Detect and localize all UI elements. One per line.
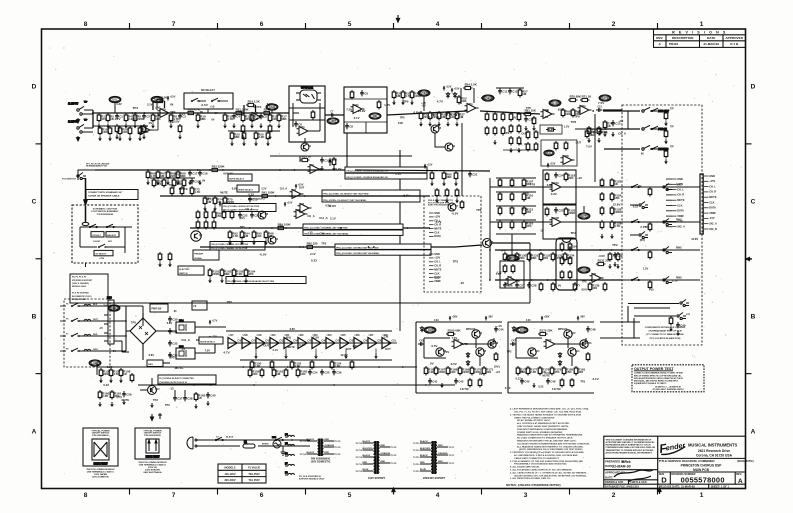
op-amp U3A <box>297 126 311 136</box>
resistor R26 <box>266 131 270 141</box>
svg-text:TO P9: TO P9 <box>449 463 454 465</box>
callout label box <box>106 232 119 237</box>
ground <box>194 404 198 409</box>
resistor R69 <box>176 170 186 180</box>
svg-text:CONFIDENCE AND SHALL NOT BE DI: CONFIDENCE AND SHALL NOT BE DISCLOSED OR <box>606 446 656 449</box>
jack J2 <box>639 232 648 239</box>
resistor R121 <box>600 178 604 188</box>
resistor R33 <box>419 111 431 121</box>
callout label box <box>210 242 265 251</box>
junction dots along buses <box>131 110 612 386</box>
svg-text:4. LAST REFERENCE DESIGNATORS: 4. LAST REFERENCE DESIGNATORS USED ARE: … <box>510 408 589 411</box>
svg-text:SQUARE INPUT SIGNALS TO VERIFY: SQUARE INPUT SIGNALS TO VERIFY: <box>634 382 667 385</box>
resistor R81 <box>172 178 183 188</box>
resistor R91 <box>204 220 208 230</box>
resistor R68 <box>166 170 176 180</box>
svg-text:U2A: U2A <box>142 125 147 128</box>
switch box 2 caption <box>138 462 167 474</box>
transformer T1 caption <box>310 457 330 464</box>
svg-text:CH_L: CH_L <box>434 260 441 264</box>
power feed -17V <box>209 336 217 341</box>
svg-text:F1 VALUE: F1 VALUE <box>248 466 260 470</box>
svg-text:BLACK: BLACK <box>363 440 371 443</box>
svg-text:C17: C17 <box>192 172 198 176</box>
diode CR6 <box>466 360 469 366</box>
ground <box>232 278 236 283</box>
svg-text:C12: C12 <box>512 90 518 94</box>
capacitor C34 <box>308 369 318 375</box>
capacitor C45 <box>520 378 530 384</box>
node junction <box>147 169 149 171</box>
box <box>176 322 195 333</box>
callout label box <box>335 250 431 255</box>
vertical x97 <box>96 363 98 375</box>
svg-text:C36: C36 <box>336 371 342 375</box>
capacitor C18 <box>198 170 208 176</box>
svg-text:APPROVED: APPROVED <box>725 36 743 40</box>
callout label box <box>303 224 403 229</box>
ground <box>203 206 207 211</box>
ground <box>213 206 217 211</box>
svg-text:120V DOMESTIC: 120V DOMESTIC <box>92 477 110 479</box>
capacitor C8 <box>345 123 353 129</box>
svg-text:68K: 68K <box>234 135 240 139</box>
voltage annotations <box>99 300 232 370</box>
resistor R79 <box>152 178 162 188</box>
svg-text:2.1V: 2.1V <box>395 172 401 176</box>
svg-text:SCHEMATIC 3-BUTTON: SCHEMATIC 3-BUTTON <box>93 208 118 211</box>
svg-text:15K: 15K <box>614 196 620 200</box>
box stub wires <box>199 101 228 113</box>
ground <box>138 136 142 141</box>
svg-text:U15: U15 <box>179 345 184 348</box>
resistor R44 <box>501 126 505 136</box>
svg-text:+15: +15 <box>308 230 313 234</box>
transformer T2 caption <box>368 476 386 480</box>
capacitor C28 <box>527 282 537 288</box>
resistor R185 <box>669 316 673 326</box>
svg-text:MUTE: MUTE <box>122 398 130 402</box>
op-amp U4 <box>294 209 308 219</box>
node junction <box>489 249 491 251</box>
resistor R154 <box>330 360 341 370</box>
svg-text:VOLTAGES SHOWN IN PARENTHESES: VOLTAGES SHOWN IN PARENTHESES ARE FOR MU… <box>517 442 590 445</box>
svg-text:CLK: CLK <box>677 203 682 207</box>
panel row wire <box>622 186 700 188</box>
mains row stub <box>60 320 66 322</box>
box <box>184 93 233 109</box>
fuse F5 <box>285 444 294 446</box>
footswitch title <box>91 208 119 216</box>
footswitch dashed box <box>72 205 138 263</box>
power feed +15V <box>424 164 433 169</box>
ground <box>430 181 434 186</box>
svg-text:-15V: -15V <box>572 246 578 249</box>
op-amp buffer U19 <box>256 338 265 349</box>
zone column labels <box>84 21 704 499</box>
resistor R16 <box>268 124 272 134</box>
svg-text:3. ALL POLARIZED CAPACITORS IN: 3. ALL POLARIZED CAPACITORS IN uF, 25V, … <box>510 469 572 472</box>
resistor R184 <box>586 352 590 362</box>
capacitor C12 <box>508 88 518 94</box>
title block right rules <box>658 458 746 488</box>
resistor R65 <box>648 280 652 290</box>
resistor R150 <box>250 360 261 370</box>
svg-text:BLK/ORG: BLK/ORG <box>363 448 373 450</box>
output power wattage lines <box>653 385 684 391</box>
output power test text <box>634 372 684 386</box>
op-amp buffer U23 <box>312 338 321 349</box>
svg-text:(0V): (0V) <box>558 108 563 112</box>
svg-text:B: B <box>751 313 756 320</box>
resistor R83 <box>460 200 464 210</box>
svg-text:BLACK: BLACK <box>420 454 428 457</box>
buffer coupling <box>363 342 369 344</box>
resistor R110 <box>522 192 533 202</box>
svg-text:1. ALL RESISTORS IN OHMS, 1/4W: 1. ALL RESISTORS IN OHMS, 1/4W, 5%. <box>510 477 551 480</box>
buffer coupling <box>237 342 243 344</box>
callout label box <box>147 360 163 367</box>
svg-text:C45: C45 <box>524 380 530 384</box>
resistor R87 <box>196 210 200 220</box>
ground <box>128 136 132 141</box>
svg-text:6.8V: 6.8V <box>149 353 155 357</box>
resistor R52 <box>534 130 538 140</box>
resistor R129 <box>503 252 514 262</box>
cable into box <box>82 206 89 226</box>
svg-text:BLACK: BLACK <box>307 438 315 441</box>
switch S10 <box>71 303 79 307</box>
transistor Q4 <box>472 330 483 338</box>
svg-text:C4: C4 <box>236 115 240 119</box>
svg-text:A PROPRIETARY NATURE. IT IS FE: A PROPRIETARY NATURE. IT IS FENDER MUSIC… <box>606 441 656 444</box>
svg-text:C2: C2 <box>146 115 150 119</box>
power amp cell U12 rails <box>416 322 502 393</box>
svg-text:C38: C38 <box>187 397 193 401</box>
svg-text:U16, P11, T1, S1, F8, RT1. NOT: U16, P11, T1, S1, F8, RT1. NOT USED: C25… <box>514 411 582 414</box>
resistor R181 <box>574 366 585 376</box>
svg-text:12.8V: 12.8V <box>328 204 336 208</box>
resistor R85 <box>442 171 452 181</box>
ground <box>314 354 318 359</box>
capacitor C1 <box>115 113 123 119</box>
svg-text:0V: 0V <box>446 350 450 354</box>
svg-text:-15: -15 <box>169 386 174 390</box>
capacitor C21 <box>468 171 478 177</box>
svg-text:U6B: U6B <box>564 156 569 158</box>
svg-text:R92 330: R92 330 <box>307 242 318 246</box>
wire preamp chain <box>93 112 289 114</box>
wire input join <box>92 110 94 128</box>
resistor R135 <box>539 282 543 292</box>
approved by signature <box>605 470 653 482</box>
limiter block U2 <box>289 86 325 142</box>
svg-text:P6 (*)OPENS AS INPUT CONNECTE: P6 (*)OPENS AS INPUT CONNECTED <box>159 377 194 380</box>
svg-text:REV.: REV. <box>736 472 742 476</box>
svg-text:MUTE: MUTE <box>254 105 262 109</box>
resistor R66 <box>561 108 573 118</box>
transformer T3 <box>431 441 437 474</box>
transistor Q12 <box>564 330 576 338</box>
capacitor C44 <box>494 326 504 332</box>
ground <box>166 180 170 185</box>
resistor R64 <box>648 250 652 260</box>
capacitor C49 <box>676 322 686 328</box>
ground <box>669 327 673 332</box>
resistor R143 <box>568 256 572 266</box>
diode CR1 <box>446 92 449 98</box>
svg-text:120V DOMESTIC: 120V DOMESTIC <box>310 459 330 463</box>
switch S7 <box>631 219 639 223</box>
svg-text:C25: C25 <box>558 209 564 213</box>
resistor R70 <box>170 186 174 196</box>
resistor R117 <box>545 172 549 182</box>
svg-text:TO P9: TO P9 <box>449 447 454 449</box>
wire mute bus <box>95 169 355 171</box>
svg-text:ATION FROM FENDER MUSICAL INST: ATION FROM FENDER MUSICAL INSTRUMENTS. <box>606 451 653 454</box>
stuffing note text <box>72 277 93 301</box>
svg-text:U1A: U1A <box>161 108 166 111</box>
footswitch cable <box>84 178 87 205</box>
connector P9 labels <box>704 176 709 229</box>
revision zone arrow bottom left <box>392 488 395 494</box>
voltage annotations <box>346 99 452 125</box>
svg-text:SIG_A: SIG_A <box>677 225 685 229</box>
transistor Q14 <box>568 348 580 356</box>
switch box 2 title <box>143 429 162 437</box>
svg-text:MID: MID <box>373 114 378 118</box>
zone row labels <box>32 84 756 436</box>
resistor R119 <box>545 207 549 217</box>
svg-text:R36 1K: R36 1K <box>302 155 313 159</box>
transformer T2 primary leads <box>363 443 374 471</box>
svg-text:0.22: 0.22 <box>516 376 522 380</box>
breakaway note <box>86 164 109 168</box>
ground <box>676 331 680 336</box>
resistor R67 <box>571 108 581 118</box>
svg-text:GUITAR OR SPEAKER CABLE: GUITAR OR SPEAKER CABLE <box>88 195 120 198</box>
resistor R169 <box>458 366 470 376</box>
svg-text:-0.5V: -0.5V <box>226 172 233 176</box>
ground <box>320 166 324 171</box>
mid box dividers <box>344 99 387 133</box>
resistor R151 <box>270 360 274 370</box>
wire chorus row 3 <box>495 249 622 251</box>
svg-text:GND: GND <box>434 211 440 215</box>
svg-text:1M: 1M <box>507 256 512 260</box>
svg-text:2.2K: 2.2K <box>334 364 341 368</box>
svg-text:VREF: VREF <box>677 214 684 218</box>
power amp cell U13 rails <box>508 322 594 393</box>
resistor R183 <box>570 378 574 388</box>
resistor R120 <box>564 207 576 217</box>
svg-text:12.8V: 12.8V <box>341 353 348 357</box>
wire to jack panel <box>603 109 622 111</box>
svg-text:-0.5V: -0.5V <box>431 344 438 348</box>
svg-text:BLUE: BLUE <box>363 469 369 471</box>
svg-text:VREF: VREF <box>709 211 716 215</box>
ground <box>250 124 254 129</box>
resistor R156 <box>99 368 111 378</box>
svg-text:DEPTH: DEPTH <box>580 214 589 218</box>
resistor R73 <box>587 126 597 136</box>
svg-text:USING THE FOLLOWING CONDITIONS: USING THE FOLLOWING CONDITIONS: <box>514 417 555 419</box>
svg-text:DATABASE FILE: 84053.S01: DATABASE FILE: 84053.S01 <box>605 484 639 488</box>
resistor R54 <box>534 142 538 152</box>
ground <box>97 124 101 129</box>
svg-text:TP2: TP2 <box>530 183 536 187</box>
capacitor C5 <box>259 113 267 119</box>
resistor R16 <box>186 108 201 115</box>
svg-text:6: 6 <box>260 21 264 28</box>
svg-text:C5: C5 <box>263 115 267 119</box>
svg-text:+15V: +15V <box>287 202 293 205</box>
capacitor C17 <box>188 170 198 176</box>
ground <box>252 240 256 245</box>
mains row stub <box>60 305 66 307</box>
switch S4 <box>651 126 659 130</box>
diode CR4 <box>466 352 469 358</box>
resistor R37 <box>455 111 465 121</box>
resistor R52 <box>457 95 467 105</box>
op-amp U1A <box>158 108 172 118</box>
callout label box <box>237 185 259 192</box>
svg-text:+15V: +15V <box>454 88 460 91</box>
resistor R21 <box>234 108 250 115</box>
svg-text:-0.5V: -0.5V <box>451 212 458 216</box>
svg-text:FOOTSWITCH: FOOTSWITCH <box>62 179 76 181</box>
voltage annotations <box>496 176 621 291</box>
svg-text:P9?) LOCATED IN MAIN PCB): P9?) LOCATED IN MAIN PCB) <box>650 337 681 340</box>
svg-text:C: C <box>751 199 756 206</box>
transformer T3 caption <box>423 476 446 480</box>
resistor R28 <box>377 100 381 110</box>
svg-text:A: A <box>32 428 37 435</box>
node junction <box>489 279 491 281</box>
ground <box>454 181 458 186</box>
svg-text:0V: 0V <box>638 184 641 188</box>
resistor R60 <box>664 129 668 139</box>
svg-text:4: 4 <box>436 21 440 28</box>
resistor R55 <box>546 128 556 131</box>
svg-text:PIN (-)CLOSED: CHORUS ON VIA: PIN (-)CLOSED: CHORUS ON VIA FTSW <box>223 209 258 212</box>
resistor R95 <box>252 230 262 240</box>
svg-text:CW: CW <box>398 121 403 125</box>
mains wire <box>79 350 126 352</box>
svg-text:REV.: REV. <box>656 36 663 40</box>
svg-text:C37: C37 <box>177 397 183 401</box>
svg-text:C11: C11 <box>502 90 508 94</box>
svg-text:+15V: +15V <box>434 215 440 219</box>
ladder link <box>503 149 536 151</box>
svg-text:C44: C44 <box>498 328 504 332</box>
svg-text:+YES: +YES <box>99 258 105 260</box>
svg-text:-15V: -15V <box>222 202 228 205</box>
pot label VR10 <box>544 150 554 155</box>
svg-text:TO P10: TO P10 <box>300 454 306 456</box>
resistor R178 <box>538 366 549 376</box>
svg-text:STUFFED IN EXPORT: STUFFED IN EXPORT <box>72 280 93 282</box>
capacitor C36 <box>332 369 342 375</box>
ground <box>198 180 202 185</box>
capacitor C39 <box>122 391 132 397</box>
resistor R35 <box>437 111 447 121</box>
svg-text:P10: P10 <box>107 295 112 299</box>
svg-text:MUTE: MUTE <box>434 267 442 271</box>
svg-text:C6: C6 <box>298 123 302 127</box>
svg-text:IN: IN <box>174 309 177 313</box>
jack J7 <box>77 173 86 180</box>
svg-text:TP9: TP9 <box>500 248 506 252</box>
svg-text:BAL: BAL <box>546 151 552 155</box>
svg-text:CH_R: CH_R <box>434 264 441 268</box>
ground <box>109 378 113 383</box>
ground <box>196 124 200 129</box>
svg-text:68K: 68K <box>520 370 526 374</box>
svg-text:10K: 10K <box>122 130 128 134</box>
speaker feed wires <box>600 306 640 338</box>
svg-text:+15: +15 <box>180 112 185 116</box>
resistor R98 <box>230 210 234 220</box>
svg-text:7: 7 <box>172 492 176 499</box>
capacitor C47 <box>510 340 516 346</box>
svg-text:R16 4.7K: R16 4.7K <box>188 108 201 112</box>
ground <box>110 402 114 407</box>
svg-text:TP2: TP2 <box>504 131 510 135</box>
svg-text:BLK/ORG: BLK/ORG <box>420 448 430 450</box>
ground <box>442 181 446 186</box>
svg-text:1M: 1M <box>276 372 281 376</box>
resistor R75 <box>223 196 235 206</box>
ground <box>142 135 146 140</box>
svg-text:PIN (-)CLOSED: CHORUS SET VIA: PIN (-)CLOSED: CHORUS SET VIA PANEL <box>336 252 380 255</box>
wire PRE OUT <box>603 110 640 112</box>
svg-text:MPSA06: MPSA06 <box>558 328 568 331</box>
ground <box>435 198 439 203</box>
wire q5 out <box>492 242 530 244</box>
pot label VR14 <box>108 305 120 311</box>
resistor R51 <box>526 130 530 140</box>
svg-text:TO P10: TO P10 <box>356 450 362 452</box>
op-amp U6 <box>506 277 520 286</box>
svg-text:D: D <box>751 84 756 91</box>
jack panel dashed enclosure <box>622 105 702 345</box>
resistor R29 <box>350 90 354 100</box>
mid tier components under rail156 <box>299 156 301 162</box>
svg-text:12.8V: 12.8V <box>173 120 180 124</box>
op-amp U2A <box>139 125 153 135</box>
chorus feed wires <box>490 187 543 222</box>
svg-text:TP2: TP2 <box>165 403 170 407</box>
node junction <box>92 112 94 114</box>
svg-text:CH_A: CH_A <box>280 186 288 190</box>
switch S2 <box>211 98 219 102</box>
svg-text:PIN (-)CLOSED: CHANNEL SET VI: PIN (-)CLOSED: CHANNEL SET VIA FTSW <box>304 226 348 229</box>
bottom misc ground <box>150 413 162 421</box>
svg-text:IN: IN <box>170 103 173 107</box>
panel row wire <box>622 279 700 281</box>
svg-text:(0V): (0V) <box>574 283 579 287</box>
capacitor C26 <box>503 282 513 288</box>
resistor R10 <box>196 113 206 123</box>
svg-text:Q10: Q10 <box>155 389 160 391</box>
ground <box>178 135 182 140</box>
svg-text:U22: U22 <box>299 333 304 337</box>
svg-text:NO AC SIGNAL AT INPUT JACK,: NO AC SIGNAL AT INPUT JACK, <box>517 419 551 422</box>
jack J6 <box>663 277 672 284</box>
svg-text:AND EQUAL, AND THAT AT RATED V: AND EQUAL, AND THAT AT RATED VOLUME INPU… <box>634 380 679 383</box>
svg-text:2. FOR SCHEMATIC OF THE DSP SU: 2. FOR SCHEMATIC OF THE DSP SUBSYSTEM (T… <box>510 460 583 463</box>
